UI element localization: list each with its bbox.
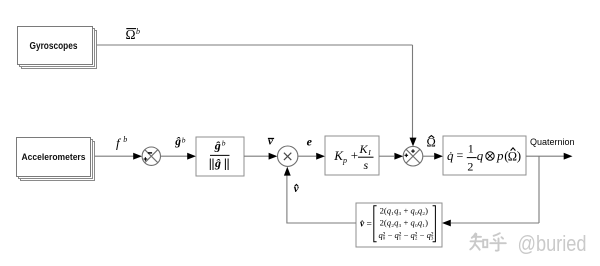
label f^b (116, 135, 127, 151)
wire normalize to M1 (244, 155, 269, 157)
svg-text:p: p (342, 156, 347, 165)
label Omega-hat (427, 136, 436, 150)
arrowhead into summing junction S3 top (410, 138, 417, 147)
label Omega-bar-b (126, 27, 141, 42)
label v-hat (294, 183, 299, 195)
watermark zhihu (470, 233, 506, 251)
svg-text:ĝ: ĝ (214, 139, 221, 153)
svg-text:e: e (307, 134, 313, 148)
block Accelerometers (stacked) (17, 138, 95, 181)
svg-text:p: p (496, 148, 504, 163)
block v-hat computation (356, 203, 442, 247)
svg-text:+: + (351, 147, 358, 162)
arrowhead into normalize block (187, 153, 196, 160)
wire accelerometer to S1 (95, 155, 135, 157)
svg-text:1: 1 (468, 142, 474, 156)
summing junction S1 (142, 147, 160, 165)
arrowhead into quaternion block (434, 153, 443, 160)
arrowhead into S1 (133, 153, 142, 160)
wire gyro vertical drop (412, 45, 414, 140)
block normalize g (196, 137, 244, 176)
arrowhead into v-hat block (442, 220, 451, 227)
svg-text:2(q₁q₃ + q₀q₂): 2(q₁q₃ + q₀q₂) (380, 206, 428, 216)
svg-text:I: I (367, 148, 371, 157)
label v-bar (268, 136, 274, 148)
svg-text:2: 2 (467, 159, 473, 173)
svg-text:Ω: Ω (508, 149, 517, 163)
wire quaternion output (526, 155, 564, 157)
svg-text:q̇: q̇ (447, 148, 454, 163)
svg-text:2(q₂q₃ + q₀q₁): 2(q₂q₃ + q₀q₁) (380, 218, 428, 228)
svg-text:ĝ: ĝ (214, 156, 221, 170)
svg-text:q: q (477, 148, 484, 163)
svg-text:b: b (182, 135, 186, 144)
svg-text:@buried: @buried (518, 231, 587, 256)
svg-text:ĝ: ĝ (174, 136, 181, 148)
wire v-hat block to M1 (left then up) (287, 222, 356, 224)
arrowhead into PI block (316, 153, 325, 160)
label g-hat-b (174, 135, 186, 148)
arrowhead into M1 (269, 153, 278, 160)
svg-text:b: b (222, 138, 226, 147)
svg-text:=: = (457, 148, 464, 162)
svg-text:v: v (268, 136, 273, 148)
wire M1 to PI block (298, 155, 316, 157)
summing junction S3 (403, 146, 423, 166)
wire feedback to v-hat block (451, 222, 539, 224)
svg-text:b: b (136, 27, 140, 36)
arrowhead into M1 bottom (284, 167, 291, 176)
svg-text:Quaternion: Quaternion (530, 137, 575, 147)
block Gyroscopes (stacked) (18, 27, 97, 69)
arrowhead into S3 (394, 153, 403, 160)
svg-text:Gyroscopes: Gyroscopes (30, 41, 78, 52)
wire gyro output horizontal (97, 44, 413, 46)
arrowhead output (564, 153, 573, 160)
block PI controller Kp + KI/s (325, 136, 379, 175)
wire S1 to normalize block (161, 155, 189, 157)
svg-text:): ) (517, 148, 521, 163)
svg-text:s: s (364, 158, 369, 172)
svg-text:b: b (123, 135, 127, 144)
svg-text:q²₀ − q²₁ − q²₂ − q²₃: q²₀ − q²₁ − q²₂ − q²₃ (379, 230, 434, 240)
svg-text:=: = (367, 219, 372, 229)
block quaternion propagation (443, 136, 526, 175)
svg-text:Accelerometers: Accelerometers (22, 152, 86, 163)
svg-text:K: K (359, 142, 369, 156)
wire PI to S3 (379, 155, 394, 157)
wire S3 to quaternion block (423, 155, 434, 157)
svg-text:Ω: Ω (427, 136, 436, 150)
multiplier M1 (cross product) (278, 146, 298, 166)
wire feedback branch down (538, 156, 540, 223)
